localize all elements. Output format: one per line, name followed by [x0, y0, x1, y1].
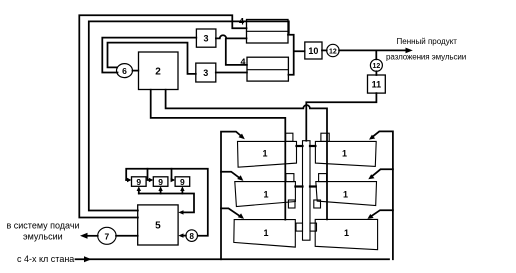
arrow into box9 no.3 left [172, 169, 173, 180]
wire branch down to circle 12b [375, 50, 377, 59]
box 3a [196, 29, 216, 47]
svg-text:7: 7 [105, 231, 110, 241]
connector box row3 right [310, 223, 317, 231]
wire machine left feed vertical and row1 left arrow [221, 132, 243, 260]
notch row2 left [286, 174, 294, 182]
notch row3 left [288, 200, 295, 208]
wire circle7 to left arrow [84, 235, 98, 237]
svg-text:4: 4 [240, 57, 245, 67]
svg-text:1: 1 [263, 228, 268, 238]
wire bottom feed line from mill [76, 258, 390, 260]
wire box3a to box4a with hop bump [216, 35, 247, 38]
wire machine right feed vertical and row1 right arrow [372, 131, 393, 259]
wire branch box3a to box4b upper input [226, 39, 247, 65]
notch row1 left [286, 133, 293, 141]
svg-text:5: 5 [155, 221, 161, 232]
arrow up into box9 no.2 bottom [160, 191, 162, 194]
wire box2 left-bottom to machine left feed vertical [151, 90, 286, 220]
svg-text:12: 12 [373, 63, 381, 70]
svg-text:9: 9 [180, 177, 185, 187]
svg-text:2: 2 [155, 67, 161, 78]
svg-text:6: 6 [122, 66, 127, 76]
svg-text:1: 1 [342, 149, 347, 159]
arrow into box9 no.2 left [148, 169, 150, 180]
wire recycle inner line (box 4a right to box 5 left) [89, 21, 289, 210]
flotation cell 1 row1 left [238, 141, 297, 167]
connector tick row1 left [297, 145, 303, 147]
svg-text:эмульсии: эмульсии [23, 232, 63, 242]
svg-text:12: 12 [329, 48, 337, 55]
row3 right arrow [370, 210, 393, 217]
pump circle 6 [117, 64, 133, 78]
svg-text:9: 9 [136, 177, 141, 187]
wire bottom feed of boxes 9 to box5 right upper [139, 194, 194, 213]
svg-text:9: 9 [158, 177, 163, 187]
svg-text:Пенный продукт: Пенный продукт [397, 37, 458, 46]
box 5 [138, 205, 178, 245]
wire box10 to circle 12a [322, 49, 327, 51]
wire circle8 to box5 arrow [183, 235, 186, 237]
svg-text:в систему подачи: в систему подачи [7, 221, 80, 231]
arrowhead to emulsion system [80, 233, 88, 239]
row2 left arrow [221, 172, 241, 179]
flotation cell 1 row3 right [315, 219, 377, 249]
wire circle6 to box 3a [102, 38, 196, 73]
wire box2 right-bottom to machine right feed vertical (hop over none) [166, 90, 327, 220]
connector box row3 left [296, 223, 303, 231]
svg-text:3: 3 [203, 68, 208, 78]
central trough [303, 141, 311, 241]
notch row2 right [319, 174, 327, 182]
box 2 [139, 52, 179, 90]
flotation cell 1 row3 left [234, 220, 295, 248]
connector tick row2 left [295, 185, 302, 187]
svg-text:разложения эмульсии: разложения эмульсии [386, 53, 466, 62]
svg-text:1: 1 [343, 190, 348, 200]
arrow into box5 right upper [178, 210, 183, 214]
svg-text:4: 4 [239, 17, 244, 27]
pump circle 7 [98, 227, 116, 244]
circle 12b [370, 59, 382, 71]
notch row3 right [314, 200, 321, 208]
wire box11 to machine centre feed [306, 93, 376, 141]
arrowhead from mill [84, 256, 92, 262]
arrow up into box9 no.1 bottom [138, 191, 140, 194]
svg-text:1: 1 [262, 149, 267, 159]
wire top feed of boxes 9 from circle 8 riser [126, 169, 208, 236]
box 9 no.2 [153, 177, 168, 187]
wire recycle outer line (box10 area to box 5 left upper) [79, 15, 246, 217]
svg-text:10: 10 [308, 46, 318, 56]
arrowhead product [406, 48, 413, 54]
circle 12a [327, 44, 339, 56]
wire circle6 to box 3b [108, 43, 196, 74]
wire circle 12b to box 11 [375, 71, 377, 75]
svg-text:8: 8 [189, 232, 194, 241]
wire box4a and box4b outputs merge to box 10 [288, 35, 305, 75]
filter box 4a [247, 20, 289, 44]
connector tick row1 right [310, 145, 315, 147]
box 10 [305, 42, 322, 59]
row2 right arrow [371, 169, 393, 177]
flotation cell 1 row1 right [315, 141, 376, 166]
flotation cell 1 row2 left [235, 182, 296, 207]
connector tick row2 right [310, 185, 316, 187]
wire box3b to box4b lower input [216, 72, 247, 74]
svg-text:1: 1 [263, 190, 268, 200]
svg-text:с 4-х кл стана: с 4-х кл стана [17, 254, 74, 264]
wire circle6 to box2 [133, 70, 139, 72]
svg-text:1: 1 [344, 228, 349, 238]
box 9 no.3 [175, 177, 190, 187]
box 3b [196, 63, 216, 82]
pump circle 8 [186, 230, 198, 242]
box 9 no.1 [132, 177, 147, 187]
filter box 4b [247, 57, 288, 81]
box 11 [368, 75, 386, 93]
wire product line to arrow [339, 49, 408, 51]
svg-text:11: 11 [372, 80, 382, 90]
arrow into box9 no.1 left [126, 179, 128, 181]
wire box5 to circle 7 [116, 235, 138, 237]
notch row1 right [321, 133, 329, 141]
svg-text:3: 3 [203, 34, 208, 44]
arrow up into box9 no.3 bottom [181, 191, 183, 194]
row3 left arrow [221, 208, 242, 217]
flotation cell 1 row2 right [316, 182, 377, 206]
